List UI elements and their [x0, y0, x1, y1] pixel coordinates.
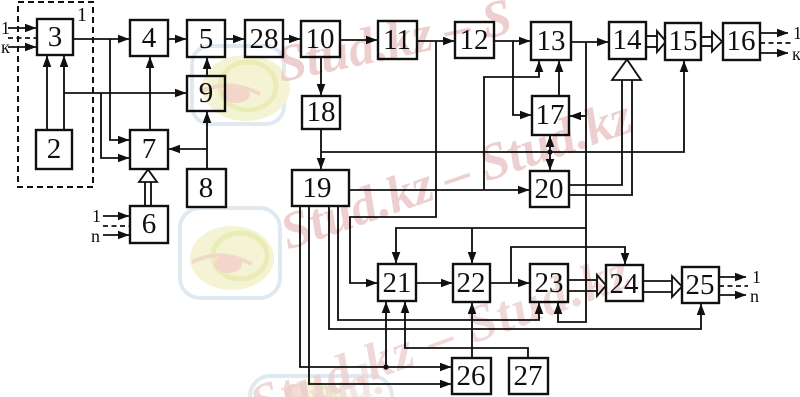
svg-text:27: 27	[514, 360, 543, 392]
block 12	[455, 22, 494, 58]
svg-text:13: 13	[537, 25, 566, 57]
wire 19 bottom long to 25 bottom	[329, 206, 701, 329]
svg-text:1: 1	[1, 18, 10, 38]
svg-text:15: 15	[669, 25, 698, 57]
wire 25 output n	[719, 294, 746, 296]
wire 4 to 5	[168, 38, 186, 40]
block 9	[187, 76, 225, 111]
open arrow head 20 to 14	[612, 60, 641, 81]
block 6	[130, 206, 168, 243]
block 20	[530, 171, 569, 207]
wire 2 branch to 9	[64, 92, 186, 94]
wire 22 to 23	[490, 282, 529, 284]
open arrow 14 to 15	[646, 35, 658, 37]
block 28	[245, 20, 283, 57]
svg-text:14: 14	[613, 24, 643, 56]
svg-text:1: 1	[77, 4, 87, 26]
block 8	[187, 169, 226, 207]
open arrow 24 to 25	[643, 280, 673, 282]
wire 16 output к	[760, 52, 788, 54]
wire 27 to 21 bottom right	[405, 302, 528, 358]
wire input n to block 6	[103, 234, 129, 236]
wire 13 to 14	[571, 41, 608, 43]
svg-text:20: 20	[535, 173, 564, 205]
svg-text:8: 8	[199, 172, 214, 204]
wire input dashed to block 6	[103, 225, 130, 227]
wire branch from 2-9 line down to 7 lower input	[101, 93, 129, 158]
wire input dashed to block 3	[8, 37, 37, 39]
svg-text:к: к	[792, 44, 800, 64]
svg-text:26: 26	[457, 360, 486, 392]
open arrow 15 to 16	[701, 36, 713, 38]
wire branch to 17 right input	[570, 115, 586, 117]
wire 11 to 12	[417, 40, 454, 42]
svg-text:2: 2	[47, 133, 62, 165]
wire 12 to 13	[494, 40, 530, 42]
wire 13-14 branch down long to 23 bottom right	[558, 42, 586, 322]
wire horizontal 228 to 21 top	[396, 228, 586, 263]
block 23	[530, 264, 568, 302]
wire 19 to 20	[349, 189, 529, 191]
block 4	[130, 20, 168, 56]
svg-text:n: n	[91, 226, 100, 246]
svg-text:16: 16	[727, 25, 756, 57]
block 13	[531, 22, 571, 60]
block 2	[36, 130, 72, 169]
wire input 1 to block 3	[8, 27, 36, 29]
dashed container box 1	[18, 2, 93, 187]
svg-text:n: n	[750, 286, 759, 306]
block 17	[532, 96, 569, 135]
wire 18 to 19	[320, 129, 322, 169]
wire 7 to 4	[149, 57, 151, 130]
block 19	[292, 170, 349, 206]
block 11	[378, 21, 417, 59]
wire 8 to 9	[206, 112, 208, 169]
wire 16 output dashed	[760, 42, 791, 44]
junction dot 26 input line	[383, 364, 388, 369]
wire input 1 to block 6	[103, 215, 129, 217]
open arrow 23 to 24	[568, 279, 598, 281]
wire 20 to 14 big arrow left leg	[569, 80, 622, 185]
svg-text:7: 7	[142, 133, 157, 165]
svg-text:4: 4	[142, 22, 157, 54]
block 7	[130, 130, 168, 169]
watermark logo rounded square 3 (bottom, clipped)	[250, 376, 392, 397]
wire 25 output 1	[719, 276, 746, 278]
block 22	[453, 264, 490, 302]
svg-text:21: 21	[383, 267, 412, 299]
svg-text:25: 25	[686, 269, 715, 301]
block 3	[37, 19, 73, 55]
watermark logo rounded square 1	[192, 46, 290, 124]
big arrow legs 6 to 7	[145, 182, 151, 206]
wire 16 output 1	[760, 32, 788, 34]
wire 25 output dashed	[719, 285, 748, 287]
wire 17 to 20 double arrow up	[549, 136, 551, 152]
wire input к to block 3	[8, 46, 36, 48]
block 21	[378, 264, 416, 301]
wire 20 to 14 big arrow right leg	[569, 80, 632, 195]
svg-text:1: 1	[92, 206, 101, 226]
svg-text:1: 1	[793, 23, 800, 43]
wire 19 bottom to 26 upper	[300, 206, 451, 367]
open arrow head 6 to 7	[139, 170, 157, 183]
wire 12-13 branch down to 17 left	[513, 41, 531, 115]
block 15	[665, 23, 701, 60]
wire 21 to 22	[416, 282, 452, 284]
wire 17 to 20 double arrow down	[549, 152, 551, 170]
wire 10 to 18	[320, 57, 322, 95]
wire 2 to 3 left	[46, 56, 48, 130]
block 5	[187, 20, 225, 57]
wire junction up to 21 bottom left	[385, 302, 387, 367]
wire 19-20 branch up to 13 bottom	[484, 61, 539, 190]
block 14	[609, 22, 646, 59]
wire 9 to 5	[206, 58, 208, 76]
wire 19 bottom to 26 lower	[309, 206, 451, 384]
wire 10 to 11	[340, 39, 377, 41]
wire 22-23 branch up over to 24 top	[511, 247, 625, 283]
block 16	[723, 23, 760, 60]
svg-text:6: 6	[142, 208, 157, 240]
wire 5 to 28	[225, 38, 244, 40]
block 27	[509, 358, 548, 394]
junction dot 17-20 line	[547, 149, 552, 154]
watermark logo rounded square 2	[180, 208, 280, 298]
wire 19 bottom to 23 bottom left	[338, 206, 539, 320]
wire 11-12 branch down to 21 left	[350, 41, 436, 283]
wire 3 to 4	[73, 38, 129, 40]
wire 17 to 13 bottom	[558, 61, 560, 96]
block 25	[682, 267, 719, 303]
wire 18-19 branch long horizontal to 15	[321, 61, 684, 152]
wire branch from 3-4 down to 7 upper input	[110, 39, 129, 140]
svg-text:3: 3	[48, 21, 63, 53]
block 24	[606, 265, 643, 301]
block 10	[301, 21, 340, 57]
svg-text:18: 18	[307, 96, 336, 128]
svg-text:1: 1	[752, 267, 761, 287]
wire branch down to 22 top	[471, 228, 473, 263]
wire 8 branch to 7 right input	[169, 148, 207, 150]
svg-text:к: к	[1, 37, 10, 57]
wire 2 to 3 right	[63, 56, 65, 130]
block 26	[452, 358, 491, 394]
block 18	[302, 96, 340, 129]
wire 28 to 10	[283, 38, 300, 40]
wire 26 to 22 bottom	[471, 303, 473, 358]
